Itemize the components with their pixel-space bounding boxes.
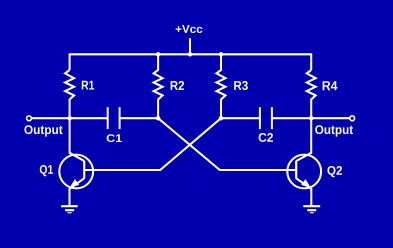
wire: cross-couple R2 node to Q2 base: [158, 118, 296, 170]
wire: R3 node to C2: [221, 117, 260, 119]
ground (left): [61, 206, 78, 213]
wire: Q2 collector riser: [310, 118, 312, 153]
wire: Q1 emitter to ground: [68, 188, 70, 207]
resistor R1: [65, 70, 94, 118]
junction: R4 bottom node: [309, 116, 314, 121]
junction: R3 bottom node: [219, 116, 224, 121]
transistor Q1: [40, 153, 93, 189]
resistor R3: [217, 54, 248, 118]
wire: right output lead: [311, 117, 349, 119]
junction: R2 bottom node: [156, 116, 161, 121]
wire: left output lead: [32, 117, 70, 119]
label Output (right): [315, 125, 353, 136]
wire: Vcc stub: [189, 38, 191, 54]
junction: rail-R2: [156, 52, 161, 57]
wire: +Vcc top rail: [70, 54, 312, 70]
wire: Q1 collector riser: [69, 118, 71, 153]
capacitor C2: [259, 107, 273, 142]
wire: cross-couple R3 node to Q1 base: [84, 118, 221, 170]
ground (right): [303, 206, 320, 213]
wire: R1 node to C1: [70, 117, 108, 119]
node: right Output terminal: [350, 116, 355, 121]
wire: Q2 emitter to ground: [310, 188, 312, 206]
junction: R1 bottom node: [67, 116, 72, 121]
transistor Q2: [287, 153, 342, 189]
node: left Output terminal: [27, 116, 32, 121]
junction: rail-Vcc stub: [188, 52, 193, 57]
wire: C1 to R2 bottom: [120, 117, 159, 119]
resistor R2: [154, 54, 184, 118]
label +Vcc: [176, 25, 203, 33]
wire: C2 to R4 bottom: [272, 117, 311, 119]
resistor R4: [307, 70, 338, 118]
junction: rail-R3: [219, 52, 224, 57]
label Output (left): [24, 125, 62, 136]
capacitor C1: [107, 107, 122, 142]
